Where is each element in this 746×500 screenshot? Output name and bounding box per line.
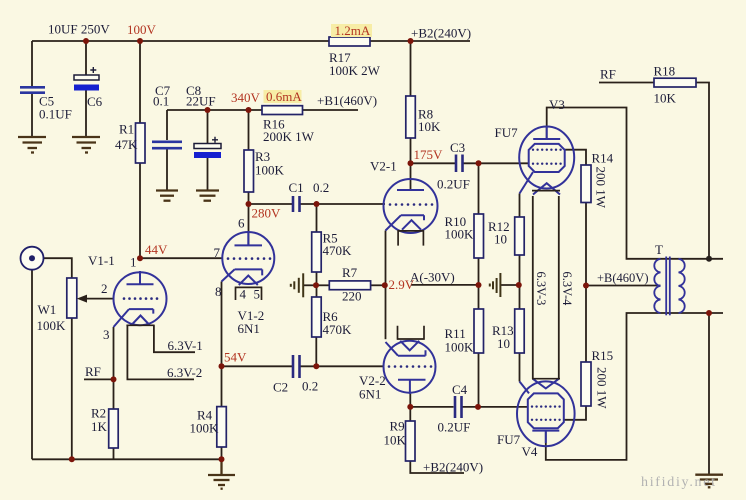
resistor R17 (329, 37, 370, 46)
svg-text:RF: RF (85, 364, 101, 379)
svg-text:100K: 100K (190, 421, 220, 436)
wire R13 top lead (519, 285, 521, 309)
resistor R1 (136, 123, 146, 163)
node W1 bottom rail (69, 456, 75, 462)
wire W1 bottom lead (71, 318, 73, 459)
current label 1.2mA (331, 24, 372, 37)
wire R15 bottom to V4 screen (564, 406, 586, 420)
wire 280V node to C1 (249, 203, 293, 205)
resistor R15 (581, 362, 591, 406)
svg-text:C6: C6 (87, 94, 103, 109)
svg-text:R9: R9 (390, 419, 405, 434)
wire secondary bottom to speaker stub (661, 312, 724, 314)
heater pin ticks V1-2 (235, 287, 263, 300)
wire V2-1 anode lead (410, 163, 412, 190)
svg-text:+B2(240V): +B2(240V) (423, 460, 483, 475)
wire V1-1 heater pin right to 6.3V-1 (154, 325, 195, 352)
wire C5 bottom lead (31, 93, 33, 136)
wire A(-30V) label to R10/R11 node (411, 284, 479, 286)
wire top B+ rail 100V/+B2 (32, 40, 470, 42)
wire +B node down to R15 (585, 286, 587, 363)
node 175V (408, 160, 414, 166)
resistor R9 (406, 421, 416, 461)
svg-text:8: 8 (215, 284, 222, 299)
capacitor C7 (152, 142, 182, 148)
svg-text:100K: 100K (37, 318, 67, 333)
node secondary bottom (706, 310, 712, 316)
svg-text:10K: 10K (384, 433, 407, 448)
wire V3 anode to transformer primary top (547, 108, 661, 259)
capacitor C4 (455, 396, 462, 418)
pentode V4 FU7 (517, 379, 575, 446)
wire R7 left lead (317, 284, 330, 286)
svg-text:R15: R15 (592, 348, 614, 363)
ground at bottom rail (208, 459, 235, 488)
svg-text:0.2: 0.2 (302, 379, 318, 394)
wire C2 right to V2-2 grid (300, 365, 385, 367)
svg-text:V2-1: V2-1 (370, 159, 397, 174)
node R5 top (314, 201, 320, 207)
wire R18 right to secondary top (696, 83, 709, 259)
wire RF to R18 (599, 82, 654, 84)
wire R3 top lead (248, 110, 250, 150)
svg-text:hifidiy.net: hifidiy.net (641, 475, 717, 490)
svg-text:200 1W: 200 1W (594, 167, 609, 209)
svg-text:10: 10 (497, 336, 510, 351)
resistor R12 (515, 217, 525, 255)
triode V2-1 (384, 179, 438, 233)
wire R5 bottom to node (316, 272, 318, 285)
resistor R5 (312, 232, 322, 272)
ground at secondary bottom (695, 475, 723, 488)
svg-text:2.9V: 2.9V (389, 277, 415, 292)
wire C6 bottom lead (85, 90, 87, 136)
wire V2-1 cathode down to 2.9V node (385, 231, 387, 286)
heater pin ticks V3 (532, 190, 560, 192)
svg-text:2: 2 (101, 281, 108, 296)
svg-text:100K: 100K (445, 227, 475, 242)
transformer T primary winding (654, 259, 660, 313)
wire R10 bottom to A node (478, 258, 480, 285)
svg-text:44V: 44V (145, 242, 168, 257)
resistor R4 (217, 407, 227, 447)
node RF/R2 (111, 376, 117, 382)
wire V1-2 cathode pin8 down to 54V node (221, 282, 223, 367)
heater pin ticks V1-1 (126, 324, 154, 326)
node +B2 rail R8 (408, 38, 414, 44)
wire R7 right lead to 2.9V node (371, 284, 385, 286)
wire C6 top lead (85, 41, 87, 75)
wire R4 top lead (221, 366, 223, 406)
wire R8 top lead (410, 41, 412, 96)
wire R1 top lead (139, 41, 141, 123)
svg-text:220: 220 (342, 289, 362, 304)
capacitor C2 (293, 355, 300, 378)
resistor R8 (406, 96, 416, 138)
wire R9 top lead (409, 407, 411, 421)
svg-text:0.6mA: 0.6mA (266, 89, 302, 104)
svg-text:V1-1: V1-1 (88, 253, 115, 268)
node R5/R6 ground (313, 282, 319, 288)
triode V2-2 flipped (384, 341, 436, 394)
wire jack shield down left edge (31, 270, 33, 460)
svg-text:R18: R18 (654, 64, 676, 79)
svg-text:22UF: 22UF (186, 94, 216, 109)
node R12/R13 ground (516, 282, 522, 288)
node 44V (137, 255, 143, 261)
wire V1-1 heater pin left to 6.3V-2 (127, 325, 194, 379)
svg-text:A(-30V): A(-30V) (410, 270, 455, 285)
node A(-30V) (476, 282, 482, 288)
svg-text:R1: R1 (119, 122, 134, 137)
capacitor C5 (20, 87, 45, 92)
wire R12 bottom to node (519, 255, 521, 285)
pentode V3 FU7 (519, 127, 574, 195)
wire C7 bottom lead (166, 149, 168, 190)
svg-text:+B2(240V): +B2(240V) (411, 26, 471, 41)
wire R12 top from V3 cathode (519, 194, 521, 218)
resistor R3 (244, 150, 254, 192)
wire V3 screen to R14 (565, 150, 586, 165)
grid dots V2-2 (388, 365, 433, 368)
svg-text:+B1(460V): +B1(460V) (317, 93, 377, 108)
wire node to R6 top (316, 285, 318, 297)
current label 0.6mA (264, 90, 302, 103)
svg-text:FU7: FU7 (497, 432, 521, 447)
ground under C7 (156, 191, 178, 201)
wire 340V rail (167, 109, 262, 111)
node V2-2 anode (407, 404, 413, 410)
wire 44V node to V1-2 grid (140, 257, 223, 259)
resistor R18 (654, 78, 696, 87)
svg-text:6.3V-1: 6.3V-1 (168, 338, 203, 353)
node C3/V3 grid (476, 160, 482, 166)
svg-text:1: 1 (130, 255, 137, 270)
heater pin ticks V4 (532, 378, 560, 380)
resistor R6 (312, 297, 322, 337)
capacitor C6 electrolytic (74, 67, 99, 91)
heater pin ticks V2-1 (397, 231, 424, 246)
svg-text:6N1: 6N1 (238, 321, 260, 336)
grid dots V2-1 (389, 203, 434, 206)
svg-text:200 1W: 200 1W (595, 367, 610, 409)
wire R11 top lead (478, 285, 480, 309)
capacitor C8 electrolytic (194, 137, 221, 158)
ground left-facing at R5/R6 node (291, 273, 303, 297)
svg-text:C3: C3 (450, 140, 465, 155)
node R4 bottom rail (219, 456, 225, 462)
svg-text:6.3V-4: 6.3V-4 (560, 272, 574, 307)
svg-text:+B(460V): +B(460V) (597, 271, 649, 285)
svg-text:100K: 100K (255, 163, 285, 178)
wire ground stub at R12/R13 node (501, 284, 519, 286)
wire input jack to W1 (44, 258, 72, 278)
wire R5 top lead (316, 204, 318, 232)
resistor R13 (515, 309, 525, 353)
wire 54V node to C2 (222, 365, 293, 367)
svg-text:C1: C1 (289, 180, 304, 195)
capacitor C1 (293, 196, 300, 212)
wire R3 bottom to V1-2 anode (248, 192, 250, 245)
triode V1-1 (114, 271, 167, 327)
wire node to V3 grid (479, 162, 529, 164)
wire R13 bottom to V4 cathode (519, 353, 521, 382)
wire R16 right to +B1 (303, 109, 359, 111)
wire FU7 heater line 6.3V-4 (558, 196, 560, 379)
svg-text:470K: 470K (323, 243, 353, 258)
wire R10 top lead (478, 163, 480, 214)
transformer T secondary winding (679, 259, 685, 313)
svg-text:V3: V3 (549, 97, 565, 112)
wire ground stub at R5/R6 node (304, 284, 316, 286)
input jack (21, 247, 44, 270)
svg-text:C2: C2 (273, 380, 288, 395)
wire secondary top to speaker stub (661, 258, 724, 260)
svg-text:5: 5 (254, 287, 261, 302)
wire C8 top lead (207, 110, 209, 143)
resistor R11 (474, 309, 484, 353)
svg-text:6: 6 (238, 216, 245, 231)
svg-text:0.2UF: 0.2UF (437, 177, 470, 192)
wire FU7 heater line 6.3V-3 (532, 196, 534, 379)
grid dots V4 (531, 405, 561, 421)
grid dots V3 (532, 149, 562, 165)
svg-text:W1: W1 (38, 302, 57, 317)
node 54V (219, 363, 225, 369)
svg-text:6.3V-3: 6.3V-3 (534, 272, 548, 306)
svg-text:54V: 54V (224, 350, 247, 365)
node 100V (137, 38, 143, 44)
node C4/V4 grid (475, 404, 481, 410)
svg-text:FU7: FU7 (495, 125, 519, 140)
wire R8 bottom to 175V node (410, 138, 412, 163)
wire R2 bottom lead (113, 448, 115, 459)
potentiometer W1 (67, 278, 114, 318)
resistor R14 (581, 165, 591, 203)
wire R1 to V1-1 anode node (139, 163, 141, 258)
wire node to V4 grid (478, 406, 528, 408)
wire V4 anode to primary bottom (546, 313, 661, 460)
wire V1-1 cathode pin3 down to R2 (113, 327, 115, 409)
node C2/R6 (313, 363, 319, 369)
svg-text:4: 4 (240, 287, 247, 302)
transformer core (666, 257, 670, 316)
svg-text:T: T (655, 242, 663, 257)
svg-text:R7: R7 (342, 265, 358, 280)
svg-text:100K 2W: 100K 2W (329, 63, 381, 78)
triode V1-2 (222, 232, 275, 285)
node 2.9V (382, 282, 388, 288)
resistor R10 (474, 214, 484, 258)
wire 2.9V node down to V2-2 cathode (385, 285, 387, 339)
svg-text:200K 1W: 200K 1W (263, 129, 315, 144)
capacitor C3 (456, 155, 463, 173)
ground left-facing at R12/R13 node (490, 273, 501, 297)
wire R4 bottom lead (221, 447, 223, 459)
resistor R16 (262, 106, 303, 115)
ground under C8 (196, 191, 219, 201)
wire bottom ground rail (32, 458, 222, 460)
svg-text:0.1UF: 0.1UF (39, 107, 72, 122)
wire R6 bottom to C2 node (315, 337, 317, 366)
svg-text:V4: V4 (522, 444, 538, 459)
resistor R2 (109, 409, 119, 448)
svg-text:100K: 100K (445, 340, 475, 355)
wire R11 bottom to C4 node (478, 353, 480, 407)
svg-text:C4: C4 (452, 382, 468, 397)
svg-text:470K: 470K (323, 322, 353, 337)
svg-text:0.2: 0.2 (313, 180, 329, 195)
svg-text:280V: 280V (252, 206, 282, 221)
node +B 460V (583, 283, 589, 289)
heater pin ticks V2-2 (397, 326, 425, 339)
svg-text:6.3V-2: 6.3V-2 (167, 365, 202, 380)
wire +B(460V) to primary center tap (586, 285, 661, 287)
svg-text:0.1: 0.1 (153, 94, 169, 109)
ground under C5 (18, 137, 46, 153)
wire RF net to R2 node (84, 378, 114, 380)
svg-text:10UF 250V: 10UF 250V (48, 22, 110, 37)
svg-text:10: 10 (494, 232, 507, 247)
node C6 top (83, 38, 89, 44)
svg-text:10K: 10K (418, 119, 441, 134)
ground under C6 (72, 137, 100, 153)
grid dots V1-2 (227, 257, 272, 260)
wire 175V node to C3 (411, 162, 456, 164)
svg-text:6N1: 6N1 (359, 387, 381, 402)
svg-text:7: 7 (214, 245, 221, 260)
wire C1 right to V2-1 grid (300, 203, 386, 205)
wire C5 top lead (31, 41, 33, 87)
wire C4 right to node (462, 406, 479, 408)
svg-text:47K: 47K (115, 137, 138, 152)
svg-text:RF: RF (600, 67, 616, 82)
svg-text:3: 3 (103, 327, 110, 342)
svg-text:340V: 340V (231, 90, 261, 105)
svg-text:10K: 10K (654, 91, 677, 106)
wire C8 bottom lead (207, 158, 209, 190)
node secondary top (706, 256, 712, 262)
wire secondary bottom to ground (708, 313, 710, 474)
svg-text:1.2mA: 1.2mA (335, 23, 371, 38)
grid dots V1-1 (123, 297, 159, 300)
wire V2-2 anode node to C4 (410, 406, 453, 408)
svg-text:0.2UF: 0.2UF (438, 420, 471, 435)
wire V2-2 anode lead lower (409, 392, 411, 407)
node 280V (246, 201, 252, 207)
svg-text:1K: 1K (91, 419, 108, 434)
svg-text:R14: R14 (592, 151, 614, 166)
wire R9 bottom to +B2 stub (410, 461, 464, 473)
svg-text:100V: 100V (127, 22, 157, 37)
wire C7 top lead (166, 110, 168, 140)
node 340V (246, 107, 252, 113)
resistor R7 (329, 281, 370, 290)
svg-text:175V: 175V (414, 147, 444, 162)
wire R14 bottom to +B node (585, 203, 587, 286)
wire C3 right to node (463, 162, 480, 164)
node C8 top (205, 107, 211, 113)
